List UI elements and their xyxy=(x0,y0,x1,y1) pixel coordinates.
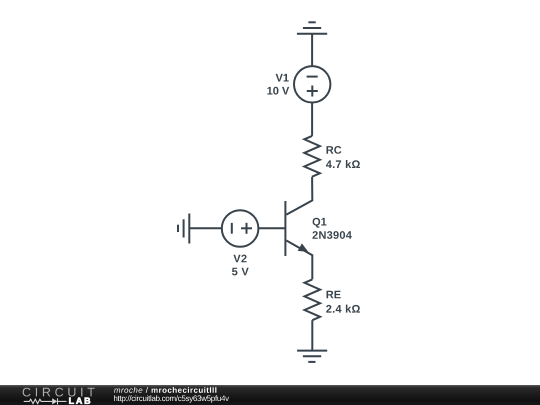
label Q1 xyxy=(313,218,327,228)
footer bar xyxy=(0,385,540,405)
footer author line xyxy=(114,387,216,393)
wire V2 to left ground xyxy=(189,227,222,229)
transistor Q1 base bar xyxy=(284,201,286,256)
resistor RC xyxy=(304,136,320,177)
ground (left, at V2 negative terminal) xyxy=(178,214,189,244)
voltage source V2 xyxy=(222,210,259,247)
transistor Q1 emitter arrow xyxy=(298,243,309,252)
value 2N3904 xyxy=(313,231,352,239)
label V2 xyxy=(233,255,246,263)
wire top ground to V1 xyxy=(311,34,313,66)
value 10 V xyxy=(267,87,289,95)
wire RE to bottom ground xyxy=(311,320,313,350)
footer url line xyxy=(114,395,229,403)
voltage source V1 xyxy=(294,66,330,102)
value 4.7 kΩ xyxy=(326,160,360,168)
ground (top, at V1 negative terminal) xyxy=(297,22,327,33)
label V1 xyxy=(276,74,289,82)
wire V2 to Q1 base xyxy=(258,227,285,229)
ground (bottom, at RE) xyxy=(297,351,327,362)
label RE xyxy=(327,291,341,299)
CircuitLab logo wordmark CIRCUIT xyxy=(23,387,95,396)
value 2.4 kΩ xyxy=(326,305,360,313)
resistor RE xyxy=(305,279,321,320)
CircuitLab logo wordmark LAB xyxy=(69,397,90,403)
wire RC to Q1 collector xyxy=(286,177,312,215)
wire V1 to RC xyxy=(311,103,313,136)
value 5 V xyxy=(232,268,249,276)
transistor Q1 emitter xyxy=(286,241,312,280)
label RC xyxy=(327,146,342,154)
CircuitLab logo resistor-diode symbol xyxy=(24,398,67,404)
